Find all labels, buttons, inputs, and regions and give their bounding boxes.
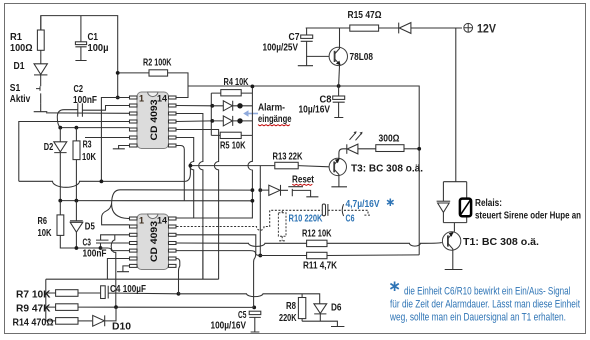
wire 12V feed bbox=[306, 27, 462, 29]
svg-text:100Ω: 100Ω bbox=[10, 42, 33, 54]
node 260 R11 row bbox=[258, 254, 262, 258]
wire long row to R13 with hop bbox=[19, 166, 191, 188]
diode D6 bbox=[314, 304, 327, 314]
svg-text:R5 10K: R5 10K bbox=[220, 140, 246, 152]
wire vertical 260 from R13 row bbox=[259, 166, 261, 256]
transistor T1 bbox=[442, 232, 539, 250]
node R3 bottom bbox=[75, 199, 79, 203]
freewheel diode bbox=[437, 200, 451, 202]
IC U2 pins right bbox=[169, 217, 177, 267]
capacitor C3 bbox=[96, 240, 109, 243]
wire pin1 row to left drop bbox=[101, 98, 129, 182]
wire top rail bbox=[41, 16, 118, 69]
capacitor C7 bbox=[306, 28, 308, 35]
svg-text:steuert Sirene oder Hupe an: steuert Sirene oder Hupe an bbox=[475, 210, 581, 222]
capacitor C1 bbox=[80, 16, 82, 42]
wire pin6 left to row 279 bbox=[107, 259, 129, 280]
capacitor C4 bbox=[78, 292, 100, 294]
alarm input terminal 1 bbox=[237, 103, 242, 108]
red squiggle eingaenge bbox=[258, 125, 290, 126]
blue note bbox=[390, 282, 398, 292]
svg-text:100µ/25V: 100µ/25V bbox=[263, 42, 299, 54]
svg-text:12V: 12V bbox=[477, 22, 496, 36]
svg-text:CD 4093: CD 4093 bbox=[149, 100, 160, 141]
resistor R14 bbox=[56, 318, 78, 325]
svg-text:C4 100µF: C4 100µF bbox=[110, 283, 146, 295]
wire IC1 pin9 drop bbox=[177, 138, 194, 219]
capacitor C6 bbox=[322, 204, 325, 216]
reset branch bbox=[258, 188, 262, 192]
node alarm row1 left bbox=[210, 104, 214, 108]
resistor R7 bbox=[56, 290, 78, 297]
wire 12V down to relay bbox=[455, 28, 457, 182]
wire row 279 bbox=[46, 278, 219, 280]
relay coil bbox=[460, 199, 471, 217]
wire C3 top to pin3 row bbox=[101, 235, 130, 240]
alarm diode 2 bbox=[223, 116, 232, 126]
wire pin3 row right bbox=[177, 235, 256, 308]
supply diode bbox=[399, 23, 411, 34]
wire 78L08 bottom bbox=[338, 66, 341, 86]
svg-text:1: 1 bbox=[139, 94, 144, 104]
svg-text:D6: D6 bbox=[331, 302, 342, 314]
node R2 left bbox=[116, 71, 120, 75]
capacitor C5 bbox=[249, 311, 261, 314]
switch S1 bbox=[36, 75, 41, 104]
diode D10 bbox=[78, 320, 92, 322]
svg-text:eingänge: eingänge bbox=[258, 113, 292, 125]
ground C7 bbox=[298, 56, 313, 65]
wire C3 bottom bbox=[100, 243, 102, 248]
relay bracket bbox=[443, 182, 466, 232]
node pin1 row bbox=[116, 96, 120, 100]
node rail R4R5 bbox=[251, 85, 255, 89]
wire IC2 pin1 arc bbox=[102, 190, 252, 225]
wire C2 left curve down to pin5 row bbox=[57, 110, 78, 128]
svg-text:C6: C6 bbox=[346, 213, 355, 225]
svg-text:100nF: 100nF bbox=[73, 94, 97, 106]
svg-text:T1: BC 308 o.ä.: T1: BC 308 o.ä. bbox=[463, 236, 539, 248]
IC U2 pins left bbox=[130, 217, 138, 267]
wire pin6 row bbox=[85, 137, 130, 139]
12V terminal bbox=[464, 22, 496, 36]
svg-text:R6: R6 bbox=[38, 215, 48, 227]
wire row 200.7 bbox=[60, 200, 252, 202]
ground IC U2 pin7 bbox=[117, 266, 130, 272]
reset contact bbox=[288, 187, 318, 197]
node D2 top bbox=[58, 126, 62, 130]
wire R9 net vertical with hop bbox=[111, 235, 116, 307]
resistor R15 bbox=[350, 25, 379, 31]
alarm diode 1 bbox=[223, 101, 232, 111]
node C4 right bbox=[177, 292, 181, 296]
IC U2 CD4093 bbox=[137, 214, 169, 270]
wire 78L08 top bbox=[339, 28, 341, 47]
wire IC1 pin12 drop bbox=[177, 114, 203, 280]
wire 8V rail bbox=[188, 86, 419, 255]
wire row 248 jog to pin5 bbox=[101, 248, 130, 251]
svg-text:T3: BC 308 o.ä.: T3: BC 308 o.ä. bbox=[351, 163, 423, 175]
node R3 top bbox=[75, 126, 79, 130]
resistor R1 bbox=[37, 30, 44, 50]
resistor R5 bbox=[220, 132, 241, 138]
wire alarm bracket left bbox=[210, 93, 212, 135]
svg-text:10K: 10K bbox=[38, 227, 52, 239]
capacitor C8 bbox=[338, 86, 340, 96]
wire R9 row bbox=[78, 306, 254, 308]
resistor 300ohm bbox=[376, 145, 404, 152]
wire T3 collector to LED bbox=[339, 149, 347, 158]
left rail bottom bbox=[46, 279, 56, 321]
diode D1 bbox=[40, 50, 42, 63]
svg-text:D10: D10 bbox=[112, 321, 131, 333]
wire C3 bottom plate row to pin4 bbox=[109, 242, 130, 244]
svg-text:R15 47Ω: R15 47Ω bbox=[348, 9, 382, 21]
ground C1 bbox=[75, 57, 86, 61]
wire IC1 pin10 drop bbox=[177, 130, 219, 280]
diode D5 bbox=[70, 201, 83, 221]
svg-text:300Ω: 300Ω bbox=[379, 133, 400, 145]
reset diode bbox=[269, 185, 280, 195]
LED bbox=[346, 144, 348, 154]
svg-text:R2 100K: R2 100K bbox=[143, 57, 172, 69]
svg-text:Aktiv: Aktiv bbox=[10, 93, 31, 105]
wire C4 row to R8 with dip bbox=[179, 294, 320, 304]
wire pin5 row D2 R3 tops bbox=[60, 127, 129, 129]
svg-text:D1: D1 bbox=[14, 60, 25, 72]
svg-text:R9 47K: R9 47K bbox=[16, 303, 51, 315]
resistor R3 bbox=[75, 128, 77, 201]
svg-text:für die Zeit der Alarmdauer. L: für die Zeit der Alarmdauer. Lässt man d… bbox=[390, 299, 580, 311]
node left drop join bbox=[100, 180, 104, 184]
wire pin4 row from left rail bbox=[19, 122, 130, 182]
svg-text:10K: 10K bbox=[82, 151, 96, 163]
svg-text:Alarm-: Alarm- bbox=[258, 102, 285, 114]
wire R8 D6 bottom bbox=[302, 321, 344, 326]
red squiggle reset bbox=[292, 184, 312, 185]
node D2 bottom bbox=[58, 199, 62, 203]
resistor R2 bbox=[149, 70, 168, 76]
wire bracket down with hop over R13 row bbox=[177, 135, 253, 218]
svg-text:R12 10K: R12 10K bbox=[302, 228, 332, 240]
svg-text:100nF: 100nF bbox=[83, 248, 107, 260]
regulator 78L08 bbox=[329, 47, 373, 65]
blue arrow alarm bbox=[247, 113, 258, 115]
svg-text:D5: D5 bbox=[85, 221, 95, 233]
wire C4 node to IC2 pin6 bbox=[177, 259, 180, 294]
node 300 right bbox=[417, 147, 421, 151]
resistor R9 bbox=[56, 304, 78, 311]
ground IC U1 pin7 bbox=[113, 146, 130, 149]
svg-text:78L08: 78L08 bbox=[350, 51, 374, 63]
resistor R10 dashed bbox=[278, 213, 286, 236]
alarm input terminal 2 bbox=[237, 118, 242, 123]
ground S1 bbox=[34, 103, 48, 111]
svg-text:R7 10K: R7 10K bbox=[16, 289, 51, 301]
wire IC1 pin13 to alarm diode1 bbox=[177, 105, 212, 107]
node rail C8 bbox=[337, 84, 341, 88]
IC U1 pins left bbox=[130, 96, 138, 147]
svg-text:220K: 220K bbox=[279, 312, 297, 324]
wire R2 feed and node bbox=[118, 69, 149, 98]
svg-text:R14 470Ω: R14 470Ω bbox=[13, 317, 54, 329]
svg-text:CD 4093: CD 4093 bbox=[149, 221, 160, 262]
ground T1 bbox=[445, 250, 463, 269]
wire R2 right to pin14 bbox=[168, 73, 188, 98]
LED arrows bbox=[350, 132, 363, 140]
svg-text:R11 4,7K: R11 4,7K bbox=[303, 260, 337, 272]
svg-text:R13 22K: R13 22K bbox=[273, 151, 303, 163]
resistor R11 bbox=[307, 252, 327, 258]
svg-text:R3: R3 bbox=[83, 139, 92, 151]
node D10 join bbox=[114, 305, 118, 309]
resistor R13 bbox=[275, 162, 298, 169]
svg-text:1: 1 bbox=[139, 216, 144, 226]
svg-text:R10 220K: R10 220K bbox=[289, 213, 323, 225]
capacitor C2 bbox=[78, 103, 83, 117]
wire R11 row bbox=[177, 251, 420, 256]
svg-text:4,7µ/16V: 4,7µ/16V bbox=[346, 198, 380, 210]
svg-text:100µ/16V: 100µ/16V bbox=[211, 320, 247, 332]
node reset row x252 bbox=[251, 188, 255, 192]
resistor R8 bbox=[298, 298, 305, 319]
diode D2 bbox=[59, 128, 61, 142]
resistor R12 bbox=[307, 240, 327, 246]
svg-text:Relais:: Relais: bbox=[475, 197, 502, 209]
svg-text:100µ: 100µ bbox=[88, 42, 109, 54]
node D5 bottom bbox=[75, 246, 79, 250]
ground T3 bbox=[331, 176, 347, 187]
svg-text:Reset: Reset bbox=[292, 174, 314, 186]
wire R12 row bbox=[177, 243, 442, 247]
wire IC2 pin5 loop bbox=[202, 251, 204, 280]
node C3 bottom bbox=[99, 246, 103, 250]
resistor R4 bbox=[221, 90, 241, 96]
svg-text:10µ/16V: 10µ/16V bbox=[299, 104, 331, 116]
svg-text:die Einheit C6/R10 bewirkt ein: die Einheit C6/R10 bewirkt ein Ein/Aus- … bbox=[404, 286, 571, 298]
node R13 left bbox=[189, 164, 193, 168]
resistor R6 bbox=[60, 201, 100, 248]
IC U1 pins right bbox=[169, 96, 177, 147]
node C5 top bbox=[252, 306, 256, 310]
wire R13 row bbox=[190, 166, 329, 167]
node row200 end bbox=[251, 199, 255, 203]
wire IC1 pin8 drop bbox=[177, 146, 185, 201]
dashed net R10 C6 bbox=[177, 210, 323, 230]
svg-text:D2: D2 bbox=[44, 141, 54, 153]
wire IC1 pin11 to alarm diode2 bbox=[177, 120, 212, 123]
IC U1 CD4093 bbox=[137, 92, 169, 149]
wire alarm bracket right vertical bbox=[251, 86, 253, 135]
svg-text:weg, sollte man ein Dauersigna: weg, sollte man ein Dauersignal an T1 er… bbox=[389, 312, 566, 324]
node alarm row2 left bbox=[210, 119, 214, 123]
wire pin3 row bbox=[46, 112, 130, 114]
wire C2 right to pin2 bbox=[82, 106, 129, 111]
transistor T3 bbox=[329, 158, 423, 175]
svg-text:R8: R8 bbox=[286, 300, 296, 312]
blue asterisk C6 bbox=[387, 199, 394, 207]
